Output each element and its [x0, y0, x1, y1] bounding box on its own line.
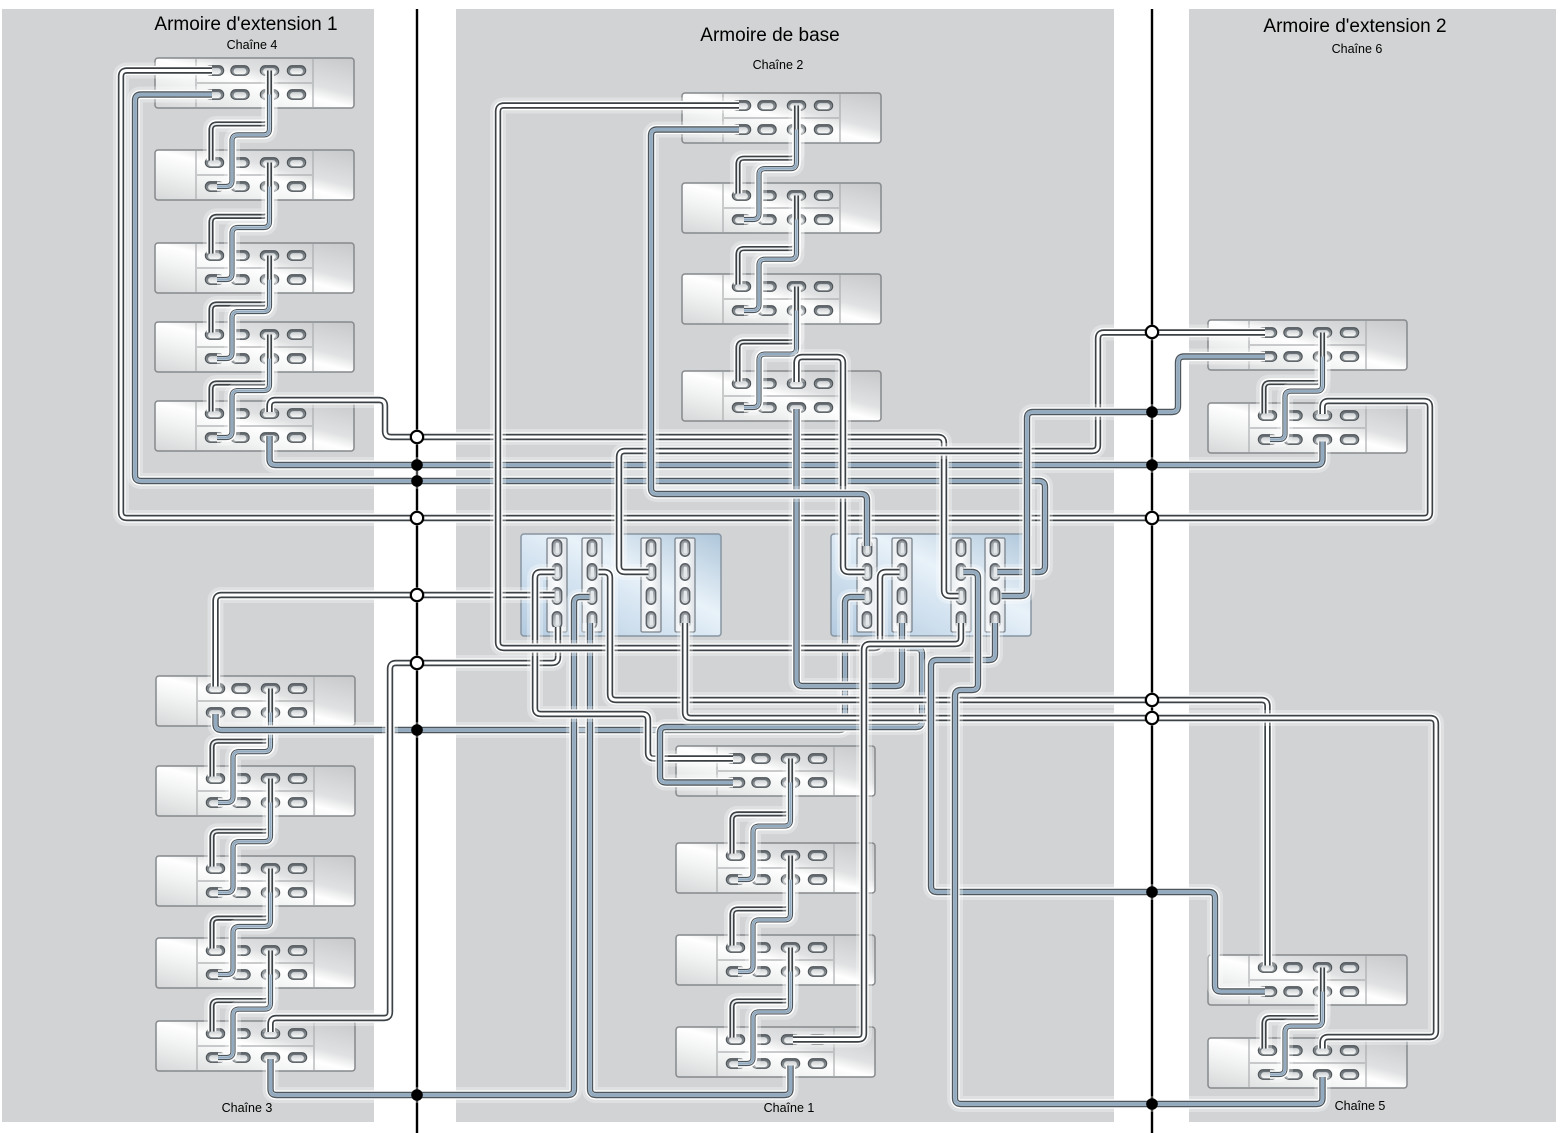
cable chain5 shelf 1 IOM1 to shelf 2 [1270, 992, 1323, 1075]
disk shelf chain3 shelf 2 [156, 766, 355, 816]
disk shelf chain1 shelf 3 [676, 935, 875, 985]
cable T1-IOM1-p1 to U2-s1-p0 [651, 130, 867, 547]
cable M4-IOM1-p3 to U1-s2-p3 [590, 623, 791, 1095]
cable chain1 shelf 2 IOM0 to shelf 3 [732, 856, 791, 946]
cable chain4 shelf 1 IOM0 to shelf 2 [211, 71, 270, 161]
svg-text:Armoire d'extension 2: Armoire d'extension 2 [1263, 16, 1446, 37]
cable chain4 shelf 1 IOM1 to shelf 2 [217, 95, 270, 187]
cable chain1 shelf 1 IOM1 to shelf 2 [738, 783, 791, 880]
cable L1-IOM1-p1 to U2-s4-p1 [135, 95, 1045, 573]
cable U2-s4-p3 to S1-IOM1-p1 [931, 623, 1265, 992]
svg-text:Armoire d'extension 1: Armoire d'extension 1 [154, 14, 337, 35]
cable B5-IOM1-p3 to U1-s2-p2 [271, 597, 590, 1095]
disk shelf chain2 shelf 1 [682, 93, 881, 143]
cable chain3 shelf 4 IOM0 to shelf 5 [212, 951, 271, 1032]
rack panel: Armoire d'extension 2 [1189, 9, 1556, 1122]
junction filled dot at 1152,892 [1146, 886, 1158, 898]
cable chain2 shelf 2 IOM1 to shelf 3 [744, 220, 797, 311]
rack panel: Armoire de base [456, 9, 1114, 1122]
disk shelf chain6 shelf 2 [1208, 403, 1407, 453]
disk shelf chain6 shelf 1 [1208, 320, 1407, 370]
cable chain3 shelf 1 IOM1 to shelf 2 [218, 713, 271, 803]
rack panel: Armoire d'extension 1 [2, 9, 374, 1122]
cable L1-IOM0-p1 to R2-IOM0-p3 [121, 71, 1430, 519]
cable chain3 shelf 4 IOM1 to shelf 5 [218, 975, 271, 1058]
cable chain4 shelf 4 IOM1 to shelf 5 [217, 359, 270, 438]
cable T4-IOM1-p3 to U2-s2-p3 [797, 409, 903, 686]
svg-text:Chaîne 4: Chaîne 4 [227, 38, 278, 52]
svg-text:Chaîne 6: Chaîne 6 [1332, 42, 1383, 56]
junction open dot at 1152,518 [1146, 512, 1158, 524]
cable chain6 shelf 1 IOM1 to shelf 2 [1270, 357, 1323, 440]
cable T1-IOM0-p1 to U2-s2-p1 [498, 106, 900, 649]
junction filled dot at 417,481 [411, 475, 423, 487]
disk shelf chain2 shelf 3 [682, 274, 881, 324]
cable chain2 shelf 3 IOM1 to shelf 4 [744, 311, 797, 408]
cable T4-IOM0-p3 to U2-s1-p1 [797, 357, 865, 572]
disk shelf chain1 shelf 1 [676, 746, 875, 796]
junction open dot at 417,518 [411, 512, 423, 524]
cable B1-IOM0-p1 to U1-s1-p2 [216, 595, 555, 687]
cable U1-s2-p1 to S1-IOM0-p1 [599, 572, 1268, 966]
cable chain2 shelf 3 IOM0 to shelf 4 [738, 287, 797, 382]
cable chain2 shelf 2 IOM0 to shelf 3 [738, 196, 797, 285]
junction filled dot at 1152,465 [1146, 459, 1158, 471]
cable M4-IOM0-p3 to U2-s3-p3 [793, 623, 961, 1040]
cable chain1 shelf 1 IOM0 to shelf 2 [732, 759, 791, 854]
cable B5-IOM0-p3 to U1-s1-p3 [271, 627, 559, 1032]
disk shelf chain5 shelf 2 [1208, 1038, 1407, 1088]
cable U2-s4-p2 to R1-IOM1-p1 [1002, 357, 1266, 597]
junction filled dot at 417,1095 [411, 1089, 423, 1101]
junction open dot at 417,437 [411, 431, 423, 443]
junction filled dot at 1152,412 [1146, 406, 1158, 418]
svg-text:Chaîne 3: Chaîne 3 [222, 1101, 273, 1115]
controller U1 [521, 534, 721, 636]
disk shelf chain2 shelf 2 [682, 183, 881, 233]
disk shelf chain4 shelf 3 [155, 243, 354, 293]
rack boundary line 1 [416, 9, 418, 1133]
rack boundary line 2 [1151, 9, 1153, 1133]
svg-text:Armoire de base: Armoire de base [700, 25, 839, 46]
cable chain5 shelf 1 IOM0 to shelf 2 [1264, 968, 1323, 1049]
disk shelf chain1 shelf 4 [676, 1027, 875, 1077]
cable B1-IOM1-p1 to U2-s1-p2 [216, 597, 865, 730]
cable U1-s1-p1 to M1-IOM0-p1 [535, 572, 733, 759]
cable chain3 shelf 3 IOM0 to shelf 4 [212, 869, 271, 949]
junction open dot at 417,663 [411, 657, 423, 669]
cable U1-s4-p3 to S2-IOM0-p3 [685, 623, 1436, 1049]
disk shelf chain4 shelf 5 [155, 401, 354, 451]
cable chain1 shelf 2 IOM1 to shelf 3 [738, 880, 791, 972]
svg-text:Chaîne 2: Chaîne 2 [753, 58, 804, 72]
junction open dot at 1152,332 [1146, 326, 1158, 338]
controller U2 [831, 534, 1031, 636]
cable L5-IOM0-p3 to U2-s3-p2 [270, 400, 959, 596]
disk shelf chain4 shelf 4 [155, 322, 354, 372]
junction filled dot at 417,730 [411, 724, 423, 736]
junction open dot at 1152,700 [1146, 694, 1158, 706]
disk shelf chain5 shelf 1 [1208, 955, 1407, 1005]
cable chain3 shelf 1 IOM0 to shelf 2 [212, 689, 271, 777]
cable U2-s2-p3 to M1-IOM1-p1 [660, 623, 922, 783]
junction filled dot at 1152,1104 [1146, 1098, 1158, 1110]
disk shelf chain2 shelf 4 [682, 371, 881, 421]
cable chain4 shelf 3 IOM1 to shelf 4 [217, 280, 270, 359]
svg-text:Chaîne 1: Chaîne 1 [764, 1101, 815, 1115]
cable chain4 shelf 2 IOM0 to shelf 3 [211, 163, 270, 254]
cable chain4 shelf 3 IOM0 to shelf 4 [211, 256, 270, 333]
disk shelf chain3 shelf 3 [156, 856, 355, 906]
svg-text:Chaîne 5: Chaîne 5 [1335, 1099, 1386, 1113]
cable chain1 shelf 3 IOM0 to shelf 4 [732, 948, 791, 1038]
disk shelf chain3 shelf 5 [156, 1021, 355, 1071]
cable chain6 shelf 1 IOM0 to shelf 2 [1264, 333, 1323, 414]
cable chain2 shelf 1 IOM1 to shelf 2 [744, 130, 797, 220]
disk shelf chain1 shelf 2 [676, 843, 875, 893]
cable chain1 shelf 3 IOM1 to shelf 4 [738, 972, 791, 1064]
disk shelf chain3 shelf 4 [156, 938, 355, 988]
cable chain3 shelf 3 IOM1 to shelf 4 [218, 893, 271, 975]
junction filled dot at 417,465 [411, 459, 423, 471]
cable chain4 shelf 2 IOM1 to shelf 3 [217, 187, 270, 280]
cable U2-s3-p1 to S2-IOM1-p3 [955, 572, 1323, 1104]
cable chain4 shelf 4 IOM0 to shelf 5 [211, 335, 270, 412]
cable chain2 shelf 1 IOM0 to shelf 2 [738, 106, 797, 194]
cable L5-IOM1-p3 to R2-IOM1-p3 [270, 436, 1323, 465]
cable chain3 shelf 2 IOM0 to shelf 3 [212, 779, 271, 867]
junction open dot at 417,595 [411, 589, 423, 601]
disk shelf chain3 shelf 1 [156, 676, 355, 726]
junction open dot at 1152,718 [1146, 712, 1158, 724]
disk shelf chain4 shelf 1 [155, 58, 354, 108]
cable chain3 shelf 2 IOM1 to shelf 3 [218, 803, 271, 893]
disk shelf chain4 shelf 2 [155, 150, 354, 200]
cable U1-s3-p1 to R1-IOM0-p1 [619, 333, 1265, 573]
